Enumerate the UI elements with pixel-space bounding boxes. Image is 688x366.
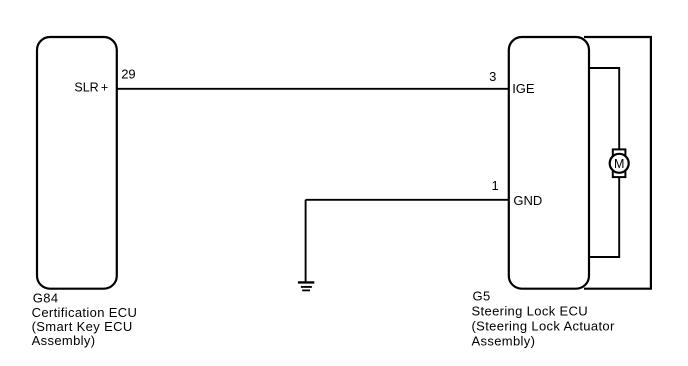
svg-text:29: 29 (121, 67, 135, 82)
label G84 block (32, 291, 138, 349)
svg-text:IGE: IGE (512, 81, 535, 96)
ground symbol (298, 282, 314, 290)
svg-text:Assembly): Assembly) (32, 333, 96, 348)
wire W1: SLR+ pin 29 to IGE pin 3 (116, 88, 510, 90)
motor M1 circle (610, 154, 629, 173)
svg-text:(Smart Key ECU: (Smart Key ECU (32, 319, 133, 334)
svg-text:(Steering Lock Actuator: (Steering Lock Actuator (472, 319, 615, 334)
ECU box G84 (Certification ECU) (37, 37, 117, 289)
label G5 block (472, 288, 615, 348)
motor M1 body rect (613, 149, 626, 177)
wire W4: motor branch loop (from G5 right side through motor) (588, 68, 619, 257)
wire W2: GND pin 1 horizontal segment (306, 199, 510, 201)
ECU box G5 (Steering Lock ECU) (509, 37, 589, 289)
svg-text:M: M (614, 157, 624, 171)
svg-text:G5: G5 (473, 288, 491, 303)
svg-text:SLR+: SLR+ (74, 80, 108, 94)
svg-text:Steering Lock ECU: Steering Lock ECU (472, 303, 589, 318)
svg-text:GND: GND (513, 193, 542, 208)
wire W3: vertical drop to ground (305, 200, 307, 283)
svg-text:Assembly): Assembly) (472, 334, 536, 349)
svg-text:Certification ECU: Certification ECU (32, 305, 138, 320)
svg-text:G84: G84 (33, 291, 59, 306)
svg-text:3: 3 (489, 69, 496, 84)
svg-text:1: 1 (491, 178, 498, 193)
steering lock actuator assembly outline (outer rectangle) (584, 37, 651, 289)
